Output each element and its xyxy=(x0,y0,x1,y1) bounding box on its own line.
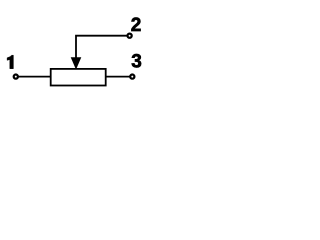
wiper arrow xyxy=(71,57,82,69)
terminal 3 xyxy=(130,75,134,79)
wire pin1 to body xyxy=(18,76,51,78)
terminal 1 xyxy=(14,75,18,79)
wire pin2 to wiper corner xyxy=(76,36,128,59)
svg-text:2: 2 xyxy=(131,15,142,36)
pin label 1 xyxy=(7,55,13,68)
terminal 2 xyxy=(128,34,132,38)
svg-text:3: 3 xyxy=(131,52,142,73)
potentiometer body xyxy=(51,69,106,86)
wire body to pin3 xyxy=(105,76,130,78)
